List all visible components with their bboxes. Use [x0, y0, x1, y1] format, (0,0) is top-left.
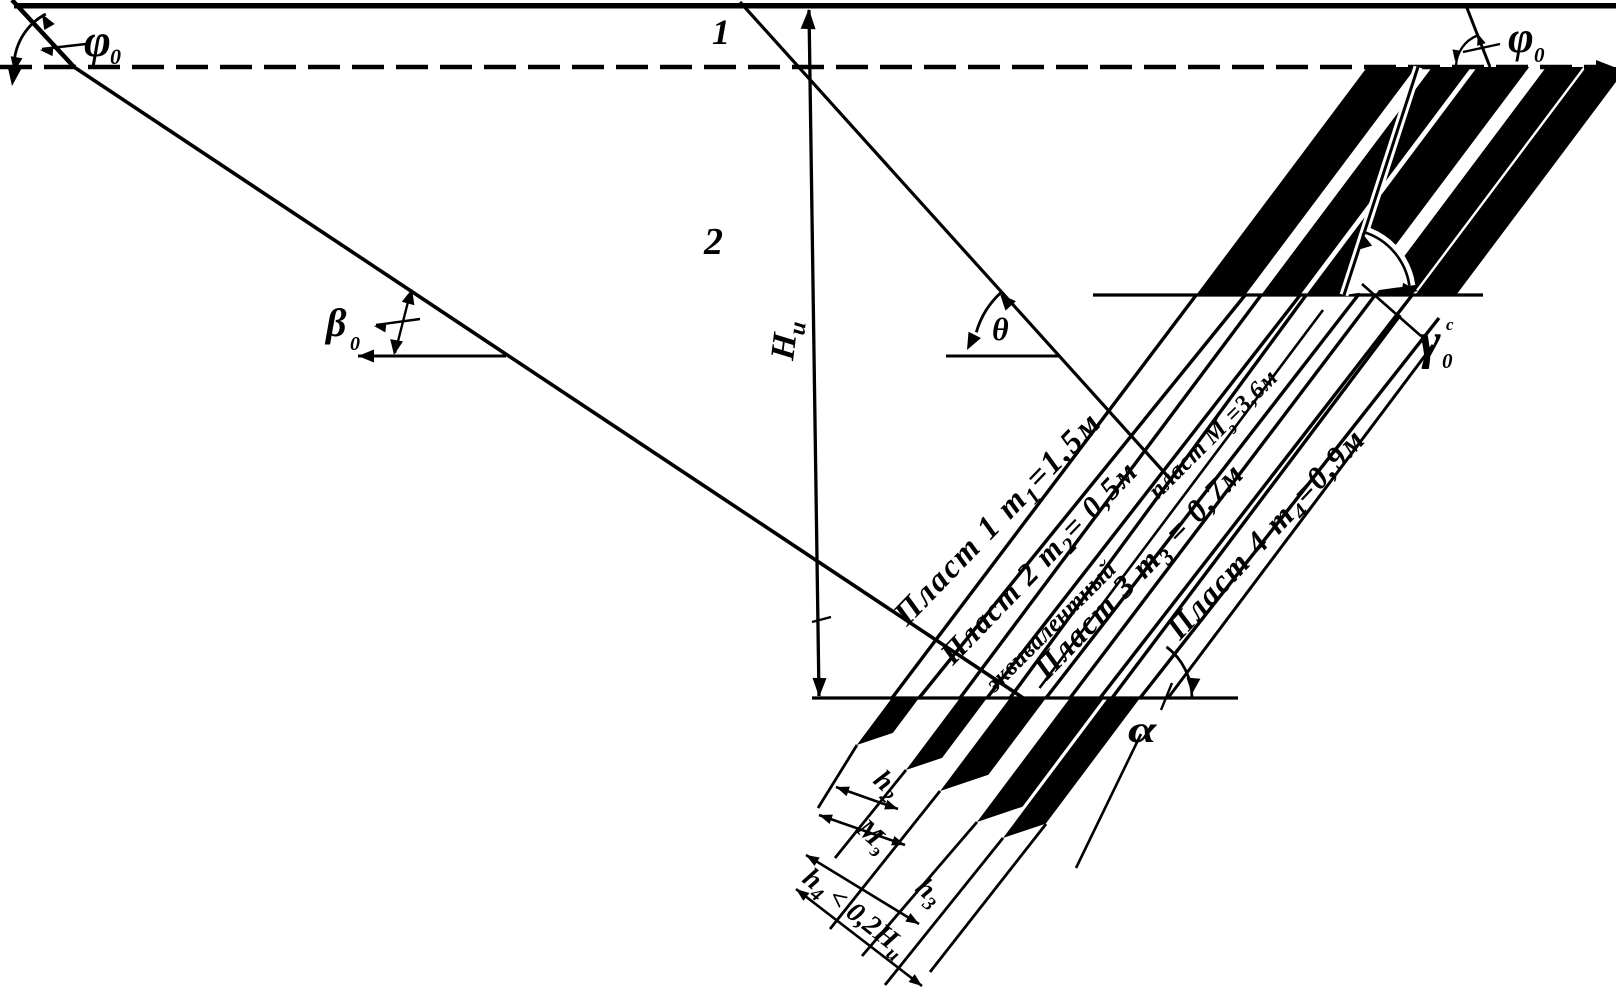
- beta0 arrow up: [402, 289, 415, 305]
- svg-text:0: 0: [1442, 349, 1453, 373]
- H line bottom arrowhead: [813, 678, 827, 697]
- seam Plast1 black band (lower, below alpha line): [857, 698, 919, 745]
- dashed line right arrowhead: [1596, 60, 1614, 74]
- ground surface line: [14, 3, 1616, 9]
- phi0 left ray (45 deg) above datum: [12, 0, 74, 67]
- seam line: outer boundary SE of Plast4: [1168, 345, 1433, 698]
- equivalent seam black band (upper outcrop): [1306, 67, 1529, 295]
- extension line from Plast2 end: [835, 770, 906, 858]
- seam line: Plast2 hanging wall: [960, 295, 1261, 698]
- svg-text:θ: θ: [992, 311, 1009, 347]
- seam Plast3 black band (upper outcrop): [1375, 67, 1583, 295]
- extension line from Plast4 end: [862, 822, 977, 956]
- gamma0 arc lower arrowhead: [1401, 283, 1418, 295]
- seam line: Plast2 footwall: [987, 295, 1300, 698]
- phi0 right leader tick: [1463, 44, 1500, 52]
- svg-text:1: 1: [712, 12, 730, 52]
- extension line from Plast3 end: [830, 791, 940, 929]
- seam line: Plast1 footwall: [919, 295, 1245, 698]
- svg-text:0: 0: [110, 44, 121, 69]
- svg-text:β: β: [324, 300, 347, 345]
- extension line from Plast5 hanging end: [885, 838, 1003, 985]
- seam line: Plast4 hanging wall: [1112, 315, 1400, 698]
- gamma0 steep line from datum to vertex: [1344, 67, 1418, 295]
- label H_i (rotated): [764, 318, 812, 364]
- dimension line h2: [836, 787, 898, 809]
- extension line from Plast1 end: [818, 745, 857, 808]
- dimension line h3 right arrowhead: [905, 913, 919, 924]
- beta0 arrow down: [390, 339, 403, 355]
- dimension line M_e right arrowhead: [891, 836, 905, 845]
- dimension line h3: [806, 855, 919, 924]
- alpha angle arc: [1167, 647, 1193, 698]
- seam Plast4 black band (upper outcrop): [1415, 67, 1616, 295]
- theta slope line from surface: [740, 2, 1172, 481]
- beta0 vertical double-arrow shaft: [395, 294, 410, 353]
- dimension line h3 left arrowhead: [806, 855, 820, 866]
- alpha arc lower arrowhead: [1186, 678, 1200, 695]
- dimension line h4 right arrowhead: [909, 974, 922, 986]
- theta arc upper arrowhead: [1000, 294, 1016, 311]
- beta0 horizontal reference line: [358, 355, 506, 358]
- phi0 right steep ray: [1467, 8, 1490, 67]
- svg-text:0: 0: [350, 333, 360, 355]
- beta0 leader arrowhead: [374, 323, 387, 333]
- gamma0 angle arc: [1363, 232, 1409, 286]
- seam line: equivalent seam right: [1046, 295, 1358, 698]
- seam Plast2 black band (lower): [906, 698, 987, 770]
- seam Plast4 black band (lower): [977, 698, 1104, 822]
- phi0 left leader arrowhead: [40, 46, 53, 56]
- svg-text:2: 2: [703, 221, 723, 263]
- dashed line left end arrowhead: [7, 65, 22, 86]
- extension line from Plast5 foot end: [930, 824, 1046, 972]
- phi0 right arc upper arrowhead: [1477, 34, 1486, 46]
- right horizontal reference line: [1093, 293, 1483, 296]
- phi0 right arc left arrowhead: [1453, 49, 1462, 61]
- seam line: equivalent seam inner boundary: [1040, 310, 1324, 688]
- svg-text:γ: γ: [1419, 313, 1441, 370]
- beta0 leader tick: [376, 319, 420, 325]
- theta horizontal reference line: [946, 355, 1059, 358]
- seam line: Plast3 footwall: [1100, 295, 1412, 698]
- label alpha: [1128, 708, 1158, 750]
- svg-text:α: α: [1128, 708, 1158, 750]
- gamma0 arc upper arrowhead: [1361, 233, 1373, 249]
- white backing of gamma0 angle sector: [1344, 226, 1415, 295]
- dimension line h2 right arrowhead: [884, 800, 898, 810]
- svg-text:φ: φ: [84, 15, 111, 66]
- alpha tick across line: [1161, 683, 1172, 710]
- seam line: outer boundary extension below alpha: [1076, 734, 1141, 868]
- phi0 left angle arc: [14, 14, 46, 63]
- H line top arrowhead: [801, 9, 816, 29]
- tick on H line: [812, 617, 831, 622]
- white casing of gamma0 steep line: [1344, 67, 1418, 295]
- seam Plast1 black band (upper outcrop): [1196, 67, 1416, 295]
- seam Plast3 black band (lower): [940, 698, 1046, 791]
- beta0 horizontal left arrowhead: [358, 350, 374, 363]
- phi0 left arc lower arrowhead: [11, 56, 23, 72]
- dimension line M_e left arrowhead: [819, 815, 833, 824]
- svg-text:φ: φ: [1508, 13, 1534, 62]
- beta0 slope line from phi0 vertex to alpha line: [74, 67, 1024, 699]
- theta arc lower arrowhead: [967, 332, 981, 350]
- theta angle arc: [976, 292, 1001, 332]
- phi0 right angle arc: [1456, 36, 1477, 66]
- seam Plast5 black band (lower): [1003, 698, 1140, 838]
- dimension line M_e: [819, 815, 905, 845]
- H depth vertical line: [809, 10, 819, 696]
- seam line: Plast3 hanging wall: [1070, 295, 1375, 698]
- phi0 left leader tick: [42, 44, 86, 49]
- seam line: equivalent seam left: [1010, 295, 1306, 698]
- gamma0 leader tick below line: [1362, 284, 1421, 336]
- svg-text:0: 0: [1534, 43, 1545, 67]
- seam line: Plast4 footwall: [1140, 318, 1439, 698]
- svg-text:с: с: [1446, 315, 1454, 334]
- dimension line h4 left arrowhead: [796, 889, 809, 901]
- seam line: Plast1 hanging wall: [892, 295, 1196, 698]
- dimension line h4: [796, 889, 922, 986]
- dimension line h2 left arrowhead: [836, 787, 850, 797]
- alpha horizontal line at seam outcrop: [812, 696, 1238, 699]
- dashed datum line at surface level: [0, 65, 1598, 70]
- seam Plast2 black band (upper outcrop): [1261, 67, 1471, 295]
- phi0 left arc upper arrowhead: [42, 14, 55, 30]
